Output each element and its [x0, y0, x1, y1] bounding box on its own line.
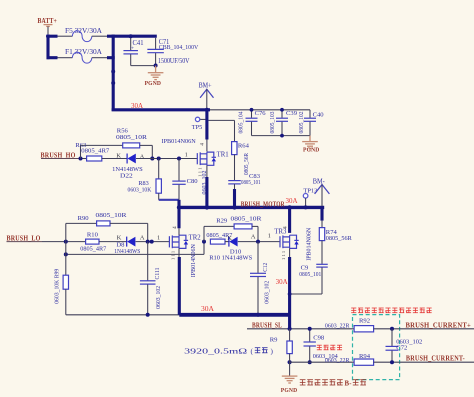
wire F5 stub right	[107, 35, 115, 38]
wire battery left vertical	[46, 35, 49, 60]
svg-text:PGND: PGND	[303, 147, 320, 154]
svg-text:BRUSH_CURRENT+: BRUSH_CURRENT+	[406, 321, 472, 329]
node C80 branch	[177, 157, 181, 161]
svg-text:BRUSH_SL: BRUSH_SL	[252, 320, 282, 329]
wire R63 to D22	[102, 158, 127, 160]
svg-text:A: A	[140, 153, 145, 160]
svg-text:B-: B-	[345, 380, 353, 387]
wire R64 to C83	[234, 155, 236, 181]
capacitor C12	[250, 242, 270, 314]
svg-text:0805_101: 0805_101	[241, 179, 261, 186]
ground PGND3	[281, 354, 298, 394]
wire main bus vertical	[112, 35, 115, 112]
resistor R10	[80, 231, 107, 252]
svg-text:F5 32V/30A: F5 32V/30A	[65, 27, 102, 35]
svg-text:30A: 30A	[201, 306, 214, 313]
svg-text:0603_10K R99: 0603_10K R99	[54, 269, 60, 304]
svg-text:1 1 1: 1 1 1	[171, 250, 176, 260]
svg-text:BM-: BM-	[313, 178, 326, 185]
wire R30 to D10	[225, 241, 229, 243]
capacitor C39	[270, 110, 298, 136]
node PGND1 junction	[154, 64, 158, 68]
svg-text:TR2: TR2	[189, 234, 202, 241]
node TR3 feed	[202, 240, 206, 244]
svg-text:R10: R10	[87, 231, 99, 238]
svg-text:0603_10K: 0603_10K	[128, 186, 152, 193]
svg-text:0805_101: 0805_101	[299, 271, 321, 278]
svg-text:IPB014N06N: IPB014N06N	[191, 243, 197, 277]
fuse F5	[58, 27, 108, 42]
port BATT+	[38, 17, 58, 34]
node C83 bus	[232, 205, 236, 209]
node TR2 gate	[150, 240, 154, 244]
wire to R74	[321, 221, 323, 228]
node C12 bottom	[256, 313, 260, 317]
svg-text:30A: 30A	[131, 103, 143, 110]
wire TR1 source pin	[206, 165, 208, 178]
svg-text:1 1 1: 1 1 1	[281, 250, 286, 260]
svg-text:0805_10R: 0805_10R	[116, 134, 148, 141]
svg-text:0603_102: 0603_102	[264, 281, 270, 304]
wire F5 stub left	[47, 35, 58, 38]
svg-text:0603_22R: 0603_22R	[325, 357, 350, 364]
wire R74 to C9	[321, 241, 323, 264]
fuse F1	[58, 48, 108, 63]
svg-text:0805_4R7: 0805_4R7	[81, 147, 110, 154]
svg-text:C76: C76	[255, 110, 267, 117]
wire top rail to C71	[112, 35, 157, 38]
svg-text:A: A	[251, 234, 256, 241]
svg-text:0805_102: 0805_102	[299, 111, 305, 133]
resistor R92	[325, 318, 374, 332]
node C111 branch	[146, 240, 150, 244]
transistor TR1 IPB014N06N	[162, 138, 229, 177]
svg-text:C41: C41	[133, 40, 144, 47]
capacitor C111	[140, 242, 162, 315]
wire F1 stub right	[107, 56, 115, 59]
wire TR3 source	[289, 248, 291, 258]
svg-text:BRUSH_HO: BRUSH_HO	[41, 150, 76, 159]
node shunt bottom	[288, 360, 292, 364]
wire BM- drop thick	[320, 207, 323, 220]
transistor TR2 IPB014N06N	[169, 226, 201, 277]
wire D22 to TR1 gate	[136, 158, 197, 160]
svg-text:0805_56R: 0805_56R	[326, 235, 353, 242]
svg-text:CBB_104_100V: CBB_104_100V	[159, 44, 199, 51]
svg-text:R92: R92	[359, 318, 370, 325]
svg-text:R29: R29	[216, 218, 228, 225]
svg-text:K: K	[116, 152, 121, 159]
svg-text:1500UF/50V: 1500UF/50V	[158, 57, 190, 65]
svg-text:4: 4	[200, 143, 206, 146]
wire R64 feed	[209, 119, 235, 121]
svg-text:4: 4	[172, 226, 178, 229]
node BRUSH_LO split	[64, 240, 68, 244]
port BM+	[199, 83, 214, 109]
node C72 bottom	[390, 360, 394, 364]
node TR1 source bus	[205, 205, 209, 209]
svg-text:1 1 1: 1 1 1	[198, 167, 203, 177]
node C98 top	[308, 327, 312, 331]
resistor R83	[128, 159, 162, 200]
svg-text:0603_22R: 0603_22R	[325, 322, 350, 329]
diode D8 1N4148WS	[114, 235, 144, 255]
wire TR2 drain	[177, 200, 180, 229]
node BATT junction	[46, 34, 50, 38]
node bus dot2	[111, 81, 115, 85]
svg-text:0805_104: 0805_104	[239, 111, 245, 133]
resistor R63	[75, 142, 110, 161]
node C9 return junction	[288, 292, 292, 296]
svg-text:A: A	[140, 235, 145, 242]
wire BRUSH_MOTOR bus	[177, 206, 324, 209]
capacitor C41	[123, 38, 143, 66]
node C111 bottom	[146, 313, 150, 317]
wire C83 to motor bus	[234, 184, 236, 191]
svg-text:TR1: TR1	[217, 152, 229, 159]
svg-text:30A: 30A	[276, 279, 288, 286]
resistor R29 parallel loop	[204, 216, 262, 242]
capacitor C9	[299, 264, 328, 278]
dashed placement box	[353, 315, 400, 380]
resistor R64	[232, 142, 250, 175]
testpoint TP5	[192, 117, 206, 131]
wire BRUSH_CURRENT-	[374, 361, 474, 363]
wire BRUSH_HO	[41, 158, 81, 160]
node TR3 drain bus	[287, 205, 291, 209]
capacitor C76	[239, 110, 267, 136]
node bottom rail C39	[280, 134, 284, 138]
svg-text:30A: 30A	[286, 198, 298, 205]
svg-text:1: 1	[185, 152, 188, 159]
transistor TR3 IPB014N06N	[274, 226, 312, 261]
svg-text:TP5: TP5	[192, 124, 203, 131]
wire D10 to TR3 gate	[238, 241, 280, 243]
svg-text:R90: R90	[78, 215, 90, 222]
wire cap bottom rail	[131, 65, 156, 67]
wire bottom current rail	[290, 361, 355, 363]
annotation three parts near driver chip	[351, 308, 431, 313]
diode D22 1N4148WS	[112, 152, 145, 179]
resistor R90 parallel loop	[66, 212, 148, 242]
node C41 top	[129, 34, 133, 38]
capacitor C40	[299, 110, 324, 136]
wire TR2 source	[178, 248, 180, 258]
wire C9 return	[321, 268, 323, 295]
wire BRUSH_LO second line	[66, 253, 204, 255]
capacitor C83	[228, 173, 260, 186]
wire TR3 drain	[288, 207, 291, 233]
capacitor C80	[172, 159, 208, 200]
wire BRUSH_LO	[7, 241, 43, 243]
wire R10 to D8	[99, 241, 127, 243]
resistor R94	[325, 353, 374, 365]
capacitor C72	[386, 329, 423, 362]
capacitor C71	[147, 38, 198, 66]
svg-text:0805_103: 0805_103	[270, 111, 276, 133]
node second line left	[64, 252, 68, 256]
wire BRUSH_SL	[247, 328, 354, 330]
svg-text:1N4148WS: 1N4148WS	[114, 248, 140, 255]
ground PGND2	[302, 136, 319, 154]
svg-text:C98: C98	[313, 335, 325, 342]
node R56 rejoin	[150, 157, 154, 161]
node C98 bottom	[308, 360, 312, 364]
svg-text:C72: C72	[396, 345, 407, 352]
svg-text:C40: C40	[313, 111, 325, 118]
wire main bus horizontal	[112, 108, 210, 111]
wire bottom rail thin	[66, 314, 180, 316]
wire caps rail	[210, 109, 310, 111]
ground PGND1	[145, 66, 164, 87]
svg-text:R10 1N4148WS: R10 1N4148WS	[209, 254, 252, 261]
node TP13 bus	[304, 205, 308, 209]
svg-text:D22: D22	[120, 172, 133, 179]
svg-text:0805_4R7: 0805_4R7	[80, 245, 107, 252]
svg-text:C80: C80	[187, 178, 199, 185]
wire TR1 drain thick	[205, 111, 208, 140]
svg-text:PGND: PGND	[281, 387, 298, 394]
node C76 rail	[250, 108, 254, 112]
capacitor C98	[304, 329, 339, 362]
node bus dot1	[111, 70, 115, 74]
annotation silkscreen chars	[255, 348, 268, 353]
svg-text:BRUSH_CURRENT-: BRUSH_CURRENT-	[406, 355, 465, 363]
wire BRUSH_CURRENT+	[374, 328, 474, 330]
svg-text:F1 32V/30A: F1 32V/30A	[65, 48, 102, 56]
node C12 branch	[256, 240, 260, 244]
svg-text:0805_10R: 0805_10R	[96, 212, 128, 219]
svg-text:IPB014N06N: IPB014N06N	[162, 138, 196, 145]
node TR2 drain bus	[177, 205, 181, 209]
node R83 branch	[157, 157, 161, 161]
svg-text:0805_10R: 0805_10R	[231, 216, 263, 223]
svg-text:1: 1	[268, 233, 271, 240]
svg-text:C111: C111	[155, 267, 161, 279]
node BM+ bus junction	[205, 108, 209, 112]
svg-text:BM+: BM+	[199, 83, 212, 90]
resistor R56 parallel loop	[81, 128, 153, 159]
annotation copper pillar ground	[300, 380, 343, 385]
svg-text:1: 1	[157, 234, 160, 241]
svg-text:R9: R9	[270, 337, 278, 344]
wire cap bank bottom rail	[252, 135, 311, 137]
node R56 split	[79, 157, 83, 161]
svg-text:IPB014N06N: IPB014N06N	[307, 227, 313, 261]
testpoint TP13	[303, 187, 318, 206]
svg-text:PGND: PGND	[145, 80, 162, 87]
resistor R99	[54, 242, 68, 315]
svg-text:4: 4	[283, 226, 289, 229]
resistor R9 shunt	[184, 329, 292, 356]
resistor R74	[319, 228, 352, 243]
svg-text:C12: C12	[263, 263, 269, 272]
svg-text:0603_102: 0603_102	[156, 286, 162, 309]
node C39 rail	[280, 108, 284, 112]
svg-text:BRUSH_MOTOR: BRUSH_MOTOR	[241, 199, 285, 208]
svg-text:R64: R64	[238, 143, 250, 150]
svg-text:3920_0.5mΩ: 3920_0.5mΩ	[184, 349, 247, 356]
annotation differential routing	[317, 345, 342, 350]
diode D10 1N4148WS	[209, 234, 256, 262]
svg-text:0805_56R: 0805_56R	[244, 153, 250, 175]
svg-text:C39: C39	[286, 110, 298, 117]
wire D8 to TR2 gate	[136, 241, 170, 243]
wire source bus 30A	[179, 313, 289, 317]
wire R83 TR2 drain link	[159, 199, 179, 201]
wire F1 stub left	[47, 56, 58, 59]
wire TR1 source thick	[205, 177, 208, 207]
resistor R30	[206, 232, 233, 244]
node shunt top	[288, 327, 292, 331]
node C72 top	[390, 327, 394, 331]
wire TR1 drain pin	[206, 140, 208, 152]
svg-text:K: K	[117, 235, 122, 242]
port BM-	[313, 178, 330, 206]
